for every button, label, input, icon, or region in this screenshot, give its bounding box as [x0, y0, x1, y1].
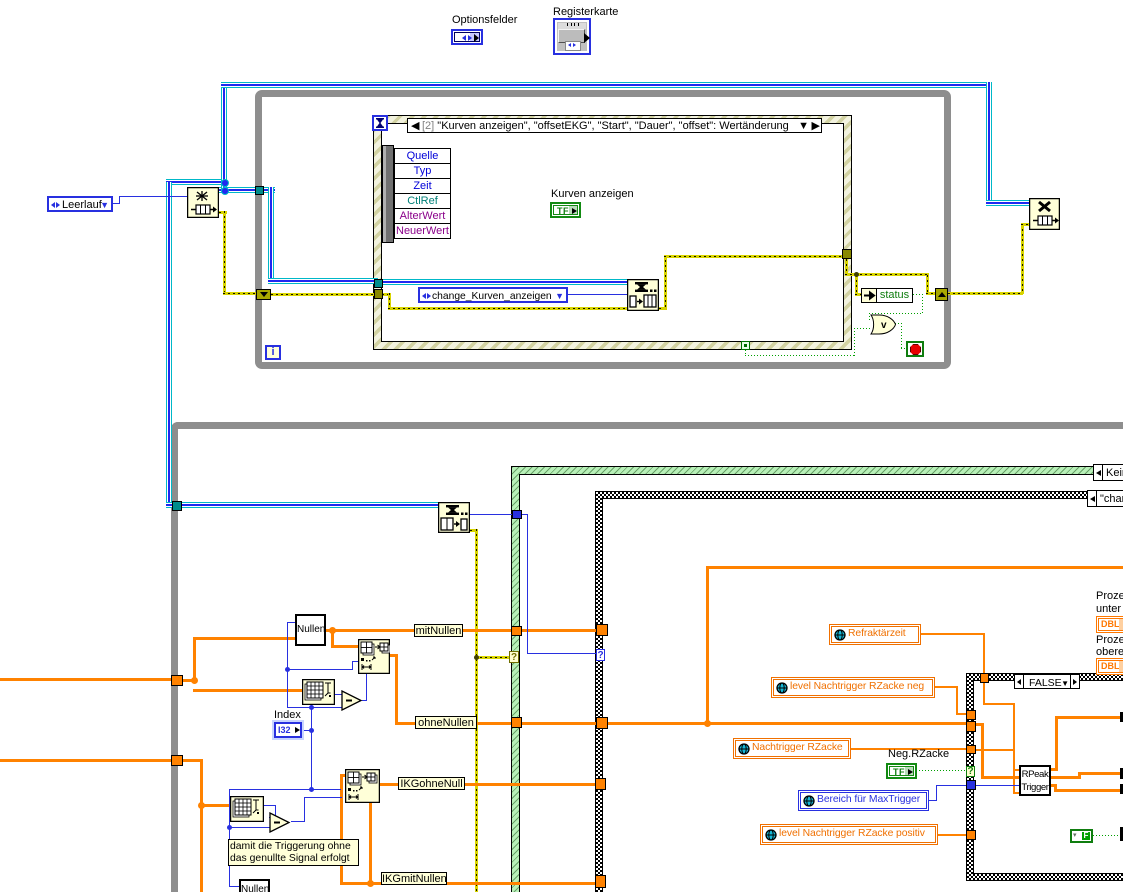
wire error branch down to status [855, 275, 858, 296]
case structure change outer frame [595, 491, 1123, 892]
event structure selector label [407, 118, 822, 133]
label Prozent obere line1 [1096, 635, 1123, 646]
case label change (clipped) [1087, 490, 1123, 507]
case structure no-error inner area [519, 474, 1123, 892]
case structure FALSE outer frame [966, 673, 1123, 881]
wire MaxTrigger stub [929, 800, 937, 801]
wire array 2 vertical down [200, 759, 203, 892]
tunnel array1 on loop2 [171, 675, 183, 686]
selector terminal checkered case [596, 649, 605, 661]
event data node field NeuerWert [394, 223, 451, 239]
junction blue Nullen net [285, 667, 290, 672]
wire Nachtrigger out [851, 748, 967, 750]
wire bool status left [869, 313, 923, 314]
wire RPeak out2 to edge [1078, 772, 1123, 775]
tunnel MaxTrigger FALSE [966, 780, 976, 790]
unbundle status text [876, 288, 913, 303]
wire MaxTrigger to tunnel [936, 785, 967, 786]
junction error selector [474, 655, 479, 660]
iteration terminal i [265, 345, 281, 360]
wire level neg to tunnel [956, 713, 967, 715]
wire queue up to top run [221, 84, 227, 182]
wire RPeak out3 jog [1054, 784, 1057, 792]
index array VI 2 [230, 796, 264, 822]
enqueue element VI [627, 279, 659, 311]
global variable level Nachtrigger RZacke positiv [760, 824, 938, 845]
stop button [906, 341, 924, 357]
wire bool OR out [895, 323, 902, 324]
wire ohneNullen branch up [706, 566, 709, 724]
tunnel ohneNullen green case [511, 717, 522, 728]
wire RPeak out2 [1051, 776, 1081, 779]
tunnel queue on loop2 [172, 501, 182, 511]
event structure outer frame [373, 115, 852, 350]
insert into array VI 1 [358, 639, 390, 674]
wire queue top horizontal run [221, 82, 992, 88]
wire bool status to OR [869, 313, 870, 321]
wire index array2 out [264, 805, 276, 806]
case structure FALSE inner area [973, 680, 1123, 874]
label Registerkarte [553, 7, 618, 18]
wire array 1 to index array [193, 689, 303, 692]
wire error after tunnel down [845, 259, 848, 276]
wire bool status down [922, 294, 923, 314]
wire RPeak out3 stub [1051, 784, 1057, 787]
label Kurven anzeigen [551, 189, 634, 200]
wire subtract1 out [362, 700, 367, 701]
case label FALSE [1014, 674, 1080, 689]
wire to subtract1 lower [287, 707, 342, 708]
wire to Nullen2 [229, 886, 240, 887]
wire queue vertical into event [268, 187, 274, 284]
wire error jog to SR [926, 275, 929, 294]
wire Leerlauf to obtain queue [119, 196, 187, 197]
wire label IKGmitNullen [381, 872, 447, 885]
wire index net left vertical [229, 789, 230, 887]
wire error jog down [388, 293, 391, 310]
wire Refraktaerzeit down to tunnel [983, 633, 985, 674]
case structure change inner area [602, 498, 1123, 892]
terminal ring Optionsfelder [451, 29, 483, 45]
wire queue right vertical [986, 82, 992, 206]
dequeue element VI [438, 502, 470, 533]
global variable level Nachtrigger RZacke neg [771, 677, 935, 698]
wire error to enqueue [388, 307, 627, 310]
wire dequeue element out [470, 514, 512, 515]
selector terminal green case [509, 651, 519, 663]
tunnel queue event [374, 279, 383, 288]
junction orange ohneNullen [704, 720, 711, 727]
wire bool OR down [901, 323, 902, 349]
wire error branch to case selector [475, 656, 512, 659]
wire error enqueue out stub [659, 307, 667, 310]
clipped terminal right edge 1 [1120, 712, 1123, 722]
release queue VI [1029, 198, 1060, 230]
wire label mitNullen [414, 624, 463, 637]
junction error status [854, 272, 859, 277]
terminal tab control Registerkarte [553, 18, 591, 55]
wire element after tunnel [521, 514, 528, 515]
wire error release stub [1021, 223, 1029, 226]
wire Nullen vertical [287, 622, 288, 708]
wire Index vertical [311, 707, 312, 790]
wire element to case selector [527, 653, 596, 654]
wire ohneNullen [395, 722, 512, 725]
tunnel mitNullen green case [511, 626, 522, 636]
tunnel Refraktaerzeit FALSE top [980, 673, 989, 683]
svg-text:v: v [881, 320, 887, 331]
wire Nachtrigger inside FALSE [976, 749, 1015, 751]
subVI RPeak Trigger [1019, 765, 1051, 796]
tunnel error event right [842, 249, 852, 259]
wire Refraktaerzeit inside FALSE down [983, 682, 985, 705]
label Neg.RZacke [888, 749, 949, 760]
wire ohneNullen to RPeak [981, 776, 1019, 779]
boolean constant FALSE [1070, 829, 1093, 843]
tunnel IKGmitNullen checkered case [595, 875, 606, 888]
OR gate [869, 314, 897, 335]
wire error up to release queue [1021, 224, 1024, 294]
wire index array2 jog [275, 805, 276, 818]
wire bool up to OR [854, 328, 855, 356]
wire level positiv out [938, 834, 967, 836]
wire Refraktaerzeit out [920, 633, 985, 635]
clipped terminal right edge 3 [1120, 784, 1123, 794]
wire queue inside event to enqueue [382, 279, 627, 285]
wire array input 2 stub [183, 759, 203, 762]
event data node field CtlRef [394, 193, 451, 209]
wire error up right of enqueue [664, 255, 667, 310]
event structure inner area [381, 123, 844, 342]
wire Index I32 stub [302, 730, 312, 731]
wire level neg down [956, 686, 958, 715]
wire subtract1 to insert1 bottom [366, 673, 367, 701]
wire RPeak out1 stub [1051, 768, 1057, 771]
subtract function 1 [341, 690, 363, 711]
wire RPeak out1 to edge [1055, 716, 1123, 719]
tunnel element green case [512, 510, 522, 519]
label Prozent unter line1 [1096, 591, 1123, 602]
junction blue I32 [309, 728, 314, 733]
junction orange array1 [191, 677, 198, 684]
junction blue index lower [309, 787, 314, 792]
terminal DBL 1 [1096, 616, 1123, 633]
tunnel queue on loop1 [255, 186, 264, 195]
wire error dequeue stub [470, 529, 478, 532]
wire insert1 mid stub [352, 661, 359, 662]
tunnel ohneNullen FALSE [966, 721, 976, 732]
wire bool into OR lower [854, 328, 872, 329]
wire IKGmitNullen vertical [340, 774, 343, 885]
clipped terminal right edge 4 [1120, 827, 1123, 841]
wire RPeak input stub bottom [1013, 792, 1020, 794]
label Index [274, 710, 301, 721]
wire array input 1 stub [183, 679, 196, 682]
wire bool NegRZacke to selector [916, 770, 966, 771]
wire IKGmitNullen horizontal [340, 882, 595, 885]
subtract function 2 [269, 812, 291, 833]
event data node field Quelle [394, 148, 451, 164]
wire insert1 mid jog [352, 661, 353, 670]
wire array 2 to index array 2 [200, 804, 232, 807]
wire insert1 output down [395, 654, 398, 724]
junction queue wire lower [221, 187, 229, 195]
wire error into unbundle [855, 293, 862, 296]
wire enum to enqueue [568, 294, 627, 295]
wire error SR to release [948, 292, 1023, 295]
wire queue into dequeue [166, 502, 438, 508]
junction orange IKGmitNullen [367, 880, 374, 887]
wire label IKGohneNull [398, 777, 465, 790]
wire into insert array 1 [331, 645, 359, 648]
wire ohneNullen inside FALSE stub [976, 723, 984, 726]
wire branch down from mitNullen [331, 629, 334, 648]
wire error horizontal to SR right [845, 273, 929, 276]
wire mitNullen from Nullen [326, 629, 514, 632]
wire queue left vertical to lower loop [166, 182, 172, 506]
wire error obtain stub [219, 211, 227, 214]
wire index array2 to subtract2 [269, 817, 276, 818]
label Prozent unter line2 [1096, 604, 1121, 615]
wire queue obtain to loop tunnel [219, 187, 275, 193]
while loop 2 border [171, 422, 1123, 892]
event structure hourglass icon [372, 115, 388, 131]
wire element down inside case [527, 514, 528, 654]
wire ohneNullen between tunnels [522, 722, 598, 725]
wire insert2 bottom branch [369, 802, 372, 884]
global variable Bereich fuer MaxTrigger [798, 790, 929, 811]
wire index array1 out [334, 694, 342, 695]
event data node bar [382, 145, 394, 243]
wire long top horizontal [706, 566, 1123, 569]
wire to insert1 mid [287, 669, 353, 670]
wire error long vertical bottom [475, 529, 478, 892]
subVI Nullen 1 [295, 614, 326, 646]
tunnel boolean event bottom [741, 341, 750, 350]
tunnel ohneNullen checkered case [596, 717, 608, 729]
event data node field Zeit [394, 178, 451, 194]
wire Leerlauf jog [119, 196, 120, 204]
junction orange array2 [198, 802, 205, 809]
subVI Nullen 2 (clipped) [239, 879, 270, 892]
junction orange mitNullen [329, 627, 336, 634]
wire error to right tunnel [664, 255, 842, 258]
wire Refraktaerzeit jog right [983, 703, 1015, 705]
wire array 1 vertical branch [193, 637, 196, 682]
wire index to insert2 [230, 789, 341, 790]
shift register left [256, 289, 271, 300]
tunnel mitNullen checkered case [596, 624, 608, 636]
wire bool to stop [901, 348, 907, 349]
wire ohneNullen inside FALSE down [981, 723, 984, 779]
wire error inside event stub [382, 293, 391, 296]
wire Nullen hook [288, 622, 295, 623]
wire Leerlauf stub [113, 203, 120, 204]
terminal I32 Index [274, 722, 302, 738]
wire RPeak out2 jog [1078, 772, 1081, 779]
event data node field Typ [394, 163, 451, 179]
wire level neg out [934, 686, 958, 688]
wire label ohneNullen [415, 716, 477, 729]
shift register right [935, 288, 948, 301]
wire MaxTrigger up [936, 785, 937, 801]
junction queue wire upper [221, 179, 229, 187]
wire subtract2 out [291, 821, 305, 822]
terminal TF Kurven anzeigen [550, 202, 581, 218]
wire RPeak out3 to edge [1054, 789, 1123, 792]
tunnel error event left [374, 289, 383, 299]
selector terminal FALSE case [966, 766, 975, 777]
global variable Nachtrigger RZacke [733, 738, 851, 759]
insert into array VI 2 [345, 769, 380, 803]
terminal DBL 2 [1096, 658, 1123, 675]
while loop 1 border [255, 90, 951, 369]
wire bool false const to edge [1093, 835, 1121, 836]
wire array input 2 from left edge [0, 759, 172, 762]
wire array 1 to Nullen [193, 637, 296, 640]
wire bool tunnel right [745, 355, 855, 356]
case structure no-error outer frame [511, 466, 1123, 892]
wire error SR stub [926, 292, 936, 295]
wire subtract2 up [304, 797, 305, 822]
wire into insert2 left stub [340, 774, 346, 777]
wire queue into event tunnel [268, 278, 378, 284]
wire queue junction left branch [166, 179, 224, 185]
tunnel array2 on loop2 [171, 755, 183, 766]
comment damit die Triggerung [228, 839, 359, 866]
wire queue junction vertical [221, 181, 227, 191]
wire RPeak input stub top [1013, 769, 1020, 771]
junction blue subtract net [309, 705, 314, 710]
enum constant Leerlauf [47, 196, 113, 212]
wire bool tunnel down [745, 350, 746, 356]
label Prozent obere line2 [1096, 647, 1123, 658]
wire array input 1 from left edge [0, 678, 172, 681]
wire mitNullen between tunnels [522, 629, 598, 632]
enum constant change_Kurven_anzeigen [418, 287, 568, 303]
wire error into shift register [223, 292, 256, 295]
wire ohneNullen to FALSE case [608, 722, 967, 725]
wire IKGohneNull [379, 783, 596, 786]
wire insert1 output stub [390, 654, 398, 657]
terminal TF Neg.RZacke [886, 763, 917, 779]
wire MaxTrigger inside FALSE [976, 785, 1019, 786]
index array VI 1 [302, 679, 335, 705]
tunnel level-positiv FALSE [966, 830, 976, 840]
wire to subtract2 lower [229, 827, 270, 828]
wire error SR to event tunnel [271, 293, 375, 296]
wire queue into release queue [986, 200, 1029, 206]
unbundle by name status icon [861, 288, 877, 303]
wire error down left [223, 211, 226, 295]
event data node field AlterWert [394, 208, 451, 224]
tunnel level-neg FALSE [966, 710, 976, 720]
obtain queue VI [187, 187, 219, 218]
label Optionsfelder [452, 15, 517, 26]
wire subtract2 to insert2 [304, 797, 342, 798]
junction blue subtract2 net [227, 825, 232, 830]
global variable Refraktaerzeit [829, 624, 921, 645]
wire RPeak out1 up [1055, 716, 1058, 771]
case label Kein Fehler (clipped) [1093, 464, 1123, 481]
tunnel Nachtrigger FALSE [966, 745, 976, 754]
tunnel IKGohneNull checkered case [595, 778, 606, 790]
wire Refraktaerzeit vertical to RPeak [1013, 703, 1015, 794]
clipped terminal right edge 2 [1120, 768, 1123, 779]
wire bool status stub [913, 294, 923, 295]
